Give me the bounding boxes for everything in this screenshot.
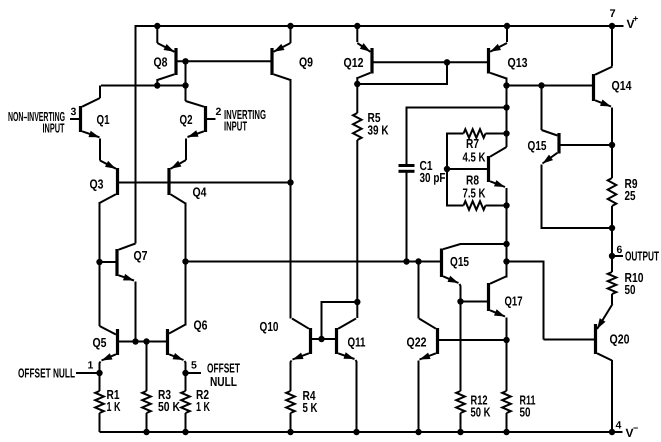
node R11 rail	[503, 429, 509, 435]
wire Q7 emitter drop	[135, 282, 137, 342]
wire V- bottom rail	[100, 431, 623, 433]
node C1 bottom	[403, 258, 409, 264]
capacitor C1	[399, 166, 415, 172]
node C1 top / Q13 collector	[503, 104, 509, 110]
transistor Q9	[272, 43, 291, 80]
node R2 rail	[182, 429, 188, 435]
node Q15mid collector junction	[503, 241, 509, 247]
wire Q15 collector drop	[541, 86, 543, 131]
label R1	[107, 387, 121, 414]
wire R2 to rail	[185, 413, 187, 432]
svg-text:7: 7	[610, 8, 616, 20]
label R11	[520, 393, 536, 420]
svg-text:Q3: Q3	[90, 177, 104, 192]
wire VBE emitter drop	[506, 188, 508, 206]
node pin 4	[609, 429, 615, 435]
node Q12 collector / R5	[354, 81, 360, 87]
node Q22 emitter rail	[415, 429, 421, 435]
label INVERTING INPUT	[224, 107, 266, 134]
node R9 / Q15 emitter	[609, 225, 615, 231]
node Q8 collector junction	[154, 82, 160, 88]
resistor R3	[142, 391, 151, 413]
wire R11 to rail	[506, 413, 508, 432]
pin 2 lead	[207, 118, 216, 120]
node Q2 collector junction	[182, 82, 188, 88]
wire R9 top	[611, 145, 613, 178]
label OFFSET NULL right	[207, 361, 240, 390]
svg-text:50: 50	[625, 282, 636, 297]
node pin 6	[609, 253, 615, 259]
label R9	[625, 176, 638, 203]
resistor R1	[95, 391, 104, 413]
wire R9 bottom	[611, 206, 613, 228]
wire Q12-Q13 base link	[374, 61, 488, 63]
wire Q12 emitter from rail	[356, 26, 358, 42]
wire Q8/Q9 base link	[178, 60, 271, 62]
label R10	[625, 270, 644, 297]
wire Q22 base lead	[439, 339, 507, 341]
transistor Q13	[489, 43, 508, 79]
wire Q14 emitter drop	[611, 108, 613, 146]
transistor Q12	[357, 43, 372, 78]
svg-text:5 K: 5 K	[303, 400, 318, 415]
node R5 bottom tap	[354, 299, 360, 305]
svg-text:+: +	[633, 14, 638, 24]
wire Q5 emitter to pin1	[100, 362, 101, 374]
transistor Q6	[168, 325, 186, 361]
wire Q10 emitter drop	[291, 361, 292, 392]
wire Q9 collector drop to Q10	[290, 79, 292, 319]
wire R3 to rail	[146, 413, 148, 432]
label C1	[420, 158, 446, 185]
node Q12 emitter rail	[354, 23, 360, 29]
svg-text:50: 50	[520, 405, 531, 420]
svg-text:30 pF: 30 pF	[420, 170, 446, 185]
resistor R12	[456, 391, 465, 413]
wire Q5-Q6 base line	[119, 341, 166, 343]
resistor R7	[464, 129, 486, 138]
wire Q13 emitter from rail	[506, 26, 508, 42]
wire pin1 to R1	[99, 373, 101, 391]
wire Q22 collector riser	[418, 262, 420, 319]
svg-text:Q20: Q20	[610, 332, 630, 347]
wire Q17 emitter drop	[506, 318, 508, 392]
wire pin5 to R2	[185, 373, 187, 391]
wire Q15m collector lead	[460, 243, 507, 245]
wire Q10-Q11 base to R5	[322, 302, 358, 339]
node R4 rail	[287, 429, 293, 435]
svg-text:Q9: Q9	[299, 55, 313, 70]
transistor Q5	[100, 326, 118, 361]
node pin 5	[182, 370, 188, 376]
svg-text:1 K: 1 K	[107, 399, 121, 414]
wire Q8 collector drop	[156, 79, 158, 86]
transistor Q15	[542, 130, 560, 164]
wire R8 right lead	[486, 205, 507, 207]
wire Q13 collector drop	[506, 78, 508, 148]
svg-text:OFFSET NULL: OFFSET NULL	[18, 366, 75, 381]
wire R7 right lead	[486, 133, 507, 135]
label V-	[626, 423, 639, 440]
svg-text:50 K: 50 K	[471, 405, 491, 420]
svg-text:Q22: Q22	[407, 335, 427, 350]
svg-text:Q11: Q11	[348, 335, 366, 350]
transistor Q1	[81, 98, 101, 137]
label R7	[463, 136, 486, 165]
wire Q4 collector drop	[185, 203, 187, 262]
transistor Q3	[100, 161, 118, 204]
wire Q6 emitter to pin5	[185, 361, 186, 373]
wire R12 to rail	[460, 413, 462, 432]
svg-text:Q5: Q5	[93, 335, 107, 350]
wire Q12 collector to base loop	[357, 62, 447, 84]
label NON-INVERTING INPUT	[8, 109, 65, 136]
svg-text:6: 6	[617, 244, 623, 256]
wire Q20 collector drop	[611, 360, 613, 432]
wire Q14 collector to rail	[611, 26, 613, 66]
wire Q3 collector drop	[99, 202, 101, 262]
wire Q8 emitter from rail	[156, 26, 158, 43]
wire Q2 emitter drop	[185, 139, 187, 161]
svg-text:OUTPUT: OUTPUT	[625, 249, 659, 264]
pin 3 lead	[70, 118, 79, 120]
wire R4 to rail	[290, 413, 292, 432]
svg-text:25: 25	[625, 188, 636, 203]
svg-text:Q7: Q7	[134, 248, 148, 263]
transistor Q14	[594, 67, 613, 107]
label R4	[303, 388, 318, 415]
node Q12-Q13 base tie	[444, 59, 450, 65]
pin 1 lead	[76, 372, 100, 374]
node VBE base / R7-R8	[444, 166, 450, 172]
wire V+ top rail	[136, 25, 624, 27]
transistor Q10	[292, 319, 311, 360]
svg-text:Q15: Q15	[528, 138, 547, 153]
node V+ pin 7	[609, 23, 615, 29]
node Q4-Q6 collector node	[182, 258, 188, 264]
label V+	[627, 14, 639, 32]
node Q14 emitter / R9 top	[609, 142, 615, 148]
node R7 right	[503, 130, 509, 136]
node Q7 base / Q3-Q5 link	[96, 259, 102, 265]
svg-text:5: 5	[191, 360, 197, 372]
wire Q20 base lead	[544, 339, 595, 341]
node Q22 base / R11 top	[503, 337, 509, 343]
node Q15 collector tap	[538, 82, 544, 88]
wire R5 to Q11 collector	[356, 140, 358, 318]
wire Q6 collector riser	[185, 262, 187, 326]
wire R8 left lead	[447, 169, 464, 206]
svg-text:Q17: Q17	[505, 294, 523, 309]
wire to output pin	[611, 228, 613, 256]
label R5	[368, 110, 389, 138]
wire Q15 emitter to output	[542, 165, 612, 229]
wire R7 left lead	[447, 134, 464, 170]
resistor R11	[502, 391, 511, 413]
wire VBE base lead	[449, 168, 488, 170]
transistor Q7	[117, 244, 136, 281]
node Q7 emitter junction	[132, 338, 138, 344]
node Q13 emitter rail	[504, 23, 510, 29]
resistor R2	[181, 391, 190, 413]
svg-text:39 K: 39 K	[368, 123, 389, 138]
wire Q1-Q8 collector link	[101, 85, 186, 87]
node R3 top junction	[143, 338, 149, 344]
transistor Q4	[169, 160, 186, 204]
wire Q15m emitter drop	[460, 284, 461, 302]
label R3	[158, 387, 180, 414]
transistor Q11	[337, 319, 357, 360]
node Q9 collector / Q3-Q4 base	[287, 179, 293, 185]
wire Q20 base riser	[507, 262, 544, 340]
wire Q1 collector riser	[99, 86, 101, 99]
svg-text:2: 2	[216, 106, 222, 118]
transistor Q8	[157, 43, 176, 80]
node Q9 emitter rail	[287, 23, 293, 29]
wire Q9 emitter from rail	[290, 26, 292, 43]
wire Q8 base drop to Q2 collector	[185, 61, 187, 101]
svg-text:Q14: Q14	[612, 78, 633, 93]
svg-text:50 K: 50 K	[158, 399, 180, 414]
transistor Q22	[419, 319, 438, 360]
wire pin6 to R10	[611, 256, 613, 272]
node R3 rail	[143, 429, 149, 435]
wire V+ left drop to Q7 collector	[135, 25, 137, 244]
transistor Q2	[186, 101, 206, 137]
resistor R8	[464, 201, 486, 210]
wire Q11 emitter drop	[356, 360, 357, 432]
resistor R4	[286, 391, 295, 413]
label R8	[463, 173, 486, 201]
wire R1 to rail	[99, 413, 101, 432]
svg-text:Q4: Q4	[193, 185, 208, 200]
wire Q10-Q11 base link	[312, 338, 335, 340]
wire R5 top	[356, 84, 358, 113]
wire Q17 collector riser	[506, 262, 508, 278]
resistor R5	[353, 113, 362, 140]
wire Q7 base lead	[100, 261, 116, 263]
transistor Q17	[489, 277, 507, 317]
wire Q17 base lead	[461, 301, 488, 303]
node Q13 collector / Q14 base	[503, 82, 509, 88]
wire C1 top lead	[407, 108, 507, 166]
svg-text:3: 3	[71, 106, 77, 118]
wire Q3 collector to Q5	[99, 262, 101, 326]
svg-text:7.5 K: 7.5 K	[463, 186, 486, 201]
wire VBE emitter to Q17 collector node	[506, 206, 508, 262]
node Q8 emitter rail	[154, 23, 160, 29]
svg-text:Q15: Q15	[450, 254, 469, 269]
wire Q13 collector to Q14 base	[507, 85, 593, 87]
svg-text:Q8: Q8	[154, 55, 168, 70]
wire R3 top	[146, 342, 148, 392]
wire Q1 emitter drop	[99, 139, 101, 161]
wire Q3-Q4 base line	[119, 182, 291, 184]
pin 6 lead	[612, 255, 623, 257]
resistor R10	[608, 272, 617, 294]
transistor Q15 middle	[442, 244, 461, 283]
node Q8 base tap	[182, 58, 188, 64]
wire R12 top	[460, 302, 462, 392]
node Q10-Q11 base tie	[318, 336, 324, 342]
wire C1 bottom lead	[406, 172, 408, 262]
svg-text:1: 1	[88, 360, 94, 372]
svg-text:4: 4	[616, 420, 622, 432]
wire Q4-Q6 node to Q15 base	[186, 261, 441, 263]
svg-text:INPUT: INPUT	[43, 121, 65, 136]
node Q15m emitter / Q17 base / R12	[457, 298, 463, 304]
svg-text:Q13: Q13	[508, 55, 528, 70]
node Q22 collector	[415, 258, 421, 264]
node pin 1	[96, 370, 102, 376]
wire Q22 emitter drop	[418, 361, 420, 433]
label R2	[196, 387, 210, 414]
svg-text:INPUT: INPUT	[224, 119, 247, 134]
resistor R9	[608, 178, 617, 206]
svg-text:Q10: Q10	[260, 319, 279, 334]
svg-text:Q6: Q6	[194, 318, 208, 333]
pin 5 lead	[186, 372, 202, 374]
wire R10 to Q20 emitter	[611, 294, 613, 304]
svg-text:Q1: Q1	[97, 112, 110, 127]
svg-text:4.5 K: 4.5 K	[463, 150, 486, 165]
transistor Q20	[596, 304, 613, 361]
label R12	[471, 393, 491, 420]
svg-text:Q12: Q12	[344, 55, 364, 70]
wire Q12 collector drop	[356, 77, 358, 84]
transistor VBE multiplier	[489, 147, 507, 187]
wire Q15 base lead	[561, 144, 613, 146]
svg-text:Q2: Q2	[180, 112, 193, 127]
svg-text:1 K: 1 K	[196, 399, 210, 414]
svg-text:NULL: NULL	[210, 374, 237, 389]
svg-text:−: −	[633, 423, 638, 433]
node Q17 collector / Q20 base	[503, 258, 509, 264]
node Q11 emitter rail	[353, 429, 359, 435]
node R12 rail	[457, 429, 463, 435]
node R8 right	[503, 202, 509, 208]
